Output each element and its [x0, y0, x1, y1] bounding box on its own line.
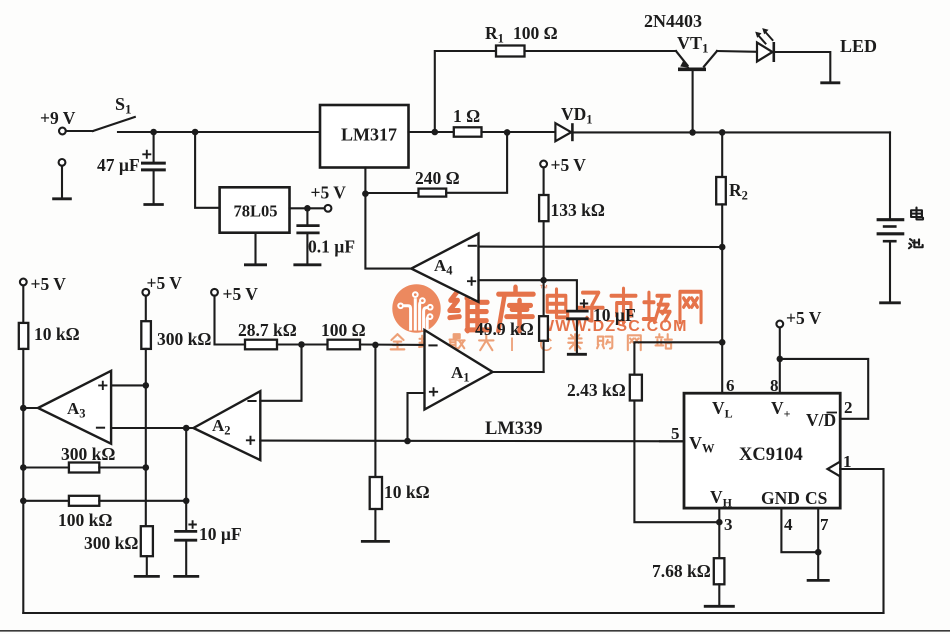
svg-text:2N4403: 2N4403: [644, 11, 702, 31]
svg-text:100 Ω: 100 Ω: [321, 320, 366, 340]
wire A1 output: [493, 371, 544, 373]
node pin4 pin7: [815, 549, 822, 556]
node 47uF tap: [150, 129, 157, 136]
resistor 300k vertical: [141, 526, 153, 575]
svg-text:1 Ω: 1 Ω: [453, 106, 480, 126]
node left rail 100k: [20, 498, 27, 505]
op-amp A2: [193, 391, 260, 460]
pin label VL: [712, 398, 733, 421]
ground: [704, 605, 735, 608]
wire to battery: [889, 132, 891, 218]
node R1 branch: [432, 129, 439, 136]
resistor 10k left: [19, 285, 29, 613]
wire +5Vc down: [215, 296, 246, 345]
transistor VT1 2N4403: [676, 51, 717, 133]
svg-text:+5 V: +5 V: [311, 183, 347, 203]
pin label V+: [771, 398, 791, 421]
wire up to R1: [435, 51, 496, 132]
pin number 1: [843, 452, 852, 471]
resistor 10k mid: [370, 345, 382, 540]
value 2.43k: [567, 380, 626, 400]
op-amp A4: [411, 234, 478, 303]
value 0.1uF: [308, 237, 355, 257]
svg-text:+5 V: +5 V: [786, 308, 822, 328]
resistor 133k: [539, 167, 548, 280]
svg-text:3: 3: [724, 515, 733, 534]
diode VD1: [555, 123, 572, 141]
value 47uF: [97, 155, 140, 175]
node pin8 +5V: [777, 356, 784, 363]
ground: [134, 575, 160, 578]
svg-text:10 µF: 10 µF: [593, 305, 636, 325]
value 10uF: [593, 305, 636, 325]
svg-text:2: 2: [844, 398, 853, 417]
svg-text:CS: CS: [805, 488, 827, 508]
value 7.68k: [652, 561, 711, 581]
svg-text:7: 7: [820, 515, 829, 534]
node 0.1uF tap: [304, 205, 311, 212]
pin 1 notch: [828, 462, 841, 477]
wire page bottom edge: [0, 630, 950, 632]
wire to 78L05 input: [195, 132, 220, 208]
wire left rail 300k row: [23, 466, 69, 468]
value 100 ohm: [513, 23, 558, 43]
terminal +5V 78L05: [311, 183, 347, 212]
label R2: [729, 180, 748, 203]
node comparator bus tap: [404, 438, 411, 445]
svg-text:10 kΩ: 10 kΩ: [34, 324, 80, 344]
node ADJ: [362, 190, 369, 197]
node pin3: [716, 519, 723, 526]
terminal to ground bar: [59, 159, 66, 198]
wire R1 to VT1 emitter: [525, 50, 677, 52]
svg-text:XC9104: XC9104: [739, 445, 803, 465]
pin 2 wire: [780, 359, 868, 419]
pin number 3: [724, 515, 733, 534]
ground: [361, 540, 390, 543]
terminal +9V: [40, 108, 76, 134]
node A2 minus tap: [298, 341, 305, 348]
svg-text:0.1 µF: 0.1 µF: [308, 237, 355, 257]
label A2: [212, 416, 231, 438]
resistor 300k row: [69, 463, 146, 473]
resistor 2.43k: [630, 342, 722, 522]
wire LM317 output: [409, 131, 454, 133]
label LM339: [485, 419, 543, 439]
wire 1ohm to VD1: [482, 131, 556, 133]
terminal +5V 133k: [540, 155, 586, 175]
label battery 电池: [909, 208, 923, 249]
IC XC9104 box: [684, 393, 840, 508]
wire A4 plus input: [479, 279, 544, 281]
wire A2 minus input: [260, 345, 301, 401]
svg-text:8: 8: [770, 376, 779, 395]
svg-text:R1: R1: [485, 23, 504, 46]
wire A4 minus to R2 bottom: [479, 246, 723, 248]
ground: [820, 81, 840, 84]
svg-text:S1: S1: [115, 94, 132, 117]
node A1 minus tap: [372, 342, 379, 349]
node A3 output: [20, 405, 27, 412]
ground: [244, 263, 267, 266]
label LED: [840, 36, 877, 56]
label 2N4403: [644, 11, 702, 31]
node A4 plus node: [540, 277, 547, 284]
value 300k vertical: [84, 533, 138, 553]
value 100 ohm mid: [321, 320, 366, 340]
resistor 1 ohm: [454, 127, 482, 136]
wire collector to LED: [717, 50, 757, 53]
svg-text:VD1: VD1: [561, 104, 593, 127]
LED diode: [755, 28, 774, 62]
svg-text:300 kΩ: 300 kΩ: [157, 329, 211, 349]
wire VD1 to battery corner: [572, 131, 890, 133]
svg-text:LM317: LM317: [341, 125, 397, 145]
node pin6 junction: [719, 339, 726, 346]
svg-text:47 µF: 47 µF: [97, 155, 140, 175]
ground: [52, 197, 72, 200]
value 49.9k: [475, 319, 534, 339]
node R2 bottom: [719, 244, 726, 251]
pin 6 wire: [721, 342, 723, 393]
wire R2 to pin6 node: [721, 247, 723, 342]
capacitor 0.1uF: [296, 208, 319, 263]
svg-text:+5 V: +5 V: [31, 274, 67, 294]
regulator U2 78L05: [220, 187, 290, 232]
wire A2 out column: [185, 428, 187, 531]
node 78L05 branch: [192, 129, 199, 136]
wire A3 minus to A2 out: [111, 427, 193, 429]
ground: [143, 203, 163, 206]
wire A3 plus input: [111, 384, 146, 386]
svg-text:+5 V: +5 V: [551, 155, 587, 175]
pin 1 wire: [840, 469, 883, 613]
svg-text:LED: LED: [840, 36, 877, 56]
watermark: [391, 283, 701, 356]
resistor R2: [716, 132, 726, 247]
svg-text:28.7 kΩ: 28.7 kΩ: [238, 320, 297, 340]
battery 电池: [877, 220, 905, 303]
wire comparator bus: [260, 440, 684, 443]
label A4: [434, 256, 453, 278]
value 10k mid: [384, 482, 430, 502]
svg-text:78L05: 78L05: [234, 202, 278, 221]
terminal +5V a: [20, 274, 66, 294]
wire 240 to 1ohm node: [446, 132, 507, 192]
svg-text:300 kΩ: 300 kΩ: [61, 444, 115, 464]
resistor 300k top: [141, 296, 151, 527]
svg-text:2.43 kΩ: 2.43 kΩ: [567, 380, 626, 400]
value 300k top: [157, 329, 211, 349]
pin 4 wire: [781, 508, 818, 552]
svg-text:LM339: LM339: [485, 419, 543, 439]
svg-text:+9 V: +9 V: [40, 108, 76, 128]
resistor 7.68k: [714, 522, 725, 605]
ground: [173, 575, 199, 578]
label R1: [485, 23, 504, 46]
resistor 100k row: [23, 496, 186, 506]
wire A1 plus input: [408, 393, 425, 441]
svg-text:49.9 kΩ: 49.9 kΩ: [475, 319, 534, 339]
resistor R1: [496, 46, 525, 57]
value 28.7k: [238, 320, 297, 340]
label VT1: [677, 33, 709, 56]
svg-text:100 kΩ: 100 kΩ: [58, 510, 112, 530]
svg-text:GND: GND: [761, 488, 800, 508]
svg-text:10 µF: 10 µF: [199, 524, 242, 544]
op-amp A3: [23, 371, 111, 444]
pin 5 wire: [660, 440, 684, 442]
svg-text:10 kΩ: 10 kΩ: [384, 482, 430, 502]
pin number 4: [784, 515, 793, 534]
svg-text:7.68 kΩ: 7.68 kΩ: [652, 561, 711, 581]
capacitor 10uF: [544, 280, 589, 353]
wire LED to ground: [774, 52, 831, 82]
node A2 out column: [183, 425, 190, 432]
value 100k row: [58, 510, 112, 530]
svg-text:6: 6: [726, 376, 735, 395]
wire LM317 adj pin: [364, 168, 366, 194]
switch S1: [66, 94, 135, 131]
svg-text:100 Ω: 100 Ω: [513, 23, 558, 43]
terminal +5V c: [211, 284, 258, 304]
ground: [567, 353, 587, 356]
ground: [807, 579, 830, 582]
node ADJ top: [504, 129, 511, 136]
svg-text:VT1: VT1: [677, 33, 709, 56]
svg-text:1: 1: [843, 452, 852, 471]
pin label CS: [805, 488, 827, 508]
resistor 240 ohm: [419, 189, 447, 197]
pin number 7: [820, 515, 829, 534]
value 10uF bottom: [199, 524, 242, 544]
label VD1: [561, 104, 593, 127]
svg-text:+5 V: +5 V: [147, 273, 183, 293]
wire 78L05 gnd pin: [254, 233, 256, 264]
pin number 8: [770, 376, 779, 395]
pin 8 wire: [779, 327, 781, 393]
node A3 plus node: [143, 382, 150, 389]
pin 3 wire: [718, 508, 720, 522]
label A1: [451, 363, 470, 385]
pin number 6: [726, 376, 735, 395]
svg-text:133 kΩ: 133 kΩ: [551, 200, 605, 220]
resistor 100 ohm mid: [328, 340, 425, 350]
svg-text:+5 V: +5 V: [223, 284, 259, 304]
pin label GND: [761, 488, 800, 508]
pin number 2: [844, 398, 853, 417]
wire 78L05 output: [290, 207, 325, 209]
svg-text:R2: R2: [729, 180, 748, 203]
value 133k: [551, 200, 605, 220]
node 300k row end: [143, 464, 150, 471]
ground: [293, 263, 321, 266]
resistor 28.7k: [245, 340, 328, 350]
svg-text:5: 5: [671, 424, 680, 443]
pin label VH: [710, 487, 733, 510]
pin 7 wire: [817, 508, 819, 579]
pin number 5: [671, 424, 680, 443]
svg-text:240 Ω: 240 Ω: [415, 168, 460, 188]
svg-text:4: 4: [784, 515, 793, 534]
capacitor 10uF bottom: [174, 520, 197, 575]
op-amp A1: [425, 330, 493, 410]
node VT1 base junction: [689, 129, 696, 136]
node left rail 300k: [20, 464, 27, 471]
capacitor 47uF: [141, 132, 166, 203]
wire adj row: [365, 192, 418, 194]
value 300k row: [61, 444, 115, 464]
pin label V/D: [806, 410, 837, 430]
regulator U1 LM317: [320, 105, 409, 168]
label A3: [67, 399, 86, 421]
svg-text:300 kΩ: 300 kΩ: [84, 533, 138, 553]
pin label VW: [689, 433, 715, 456]
wire +9V rail: [118, 131, 320, 133]
wire A4 output feedback: [365, 194, 411, 269]
node 100k right end: [183, 498, 190, 505]
value 1 ohm: [453, 106, 480, 126]
value 10k left: [34, 324, 80, 344]
wire bottom rail: [23, 612, 883, 614]
terminal +5V d: [776, 308, 821, 328]
value 240 ohm: [415, 168, 460, 188]
terminal +5V b: [142, 273, 182, 296]
node R2 top: [719, 129, 726, 136]
resistor 49.9k: [539, 280, 548, 372]
